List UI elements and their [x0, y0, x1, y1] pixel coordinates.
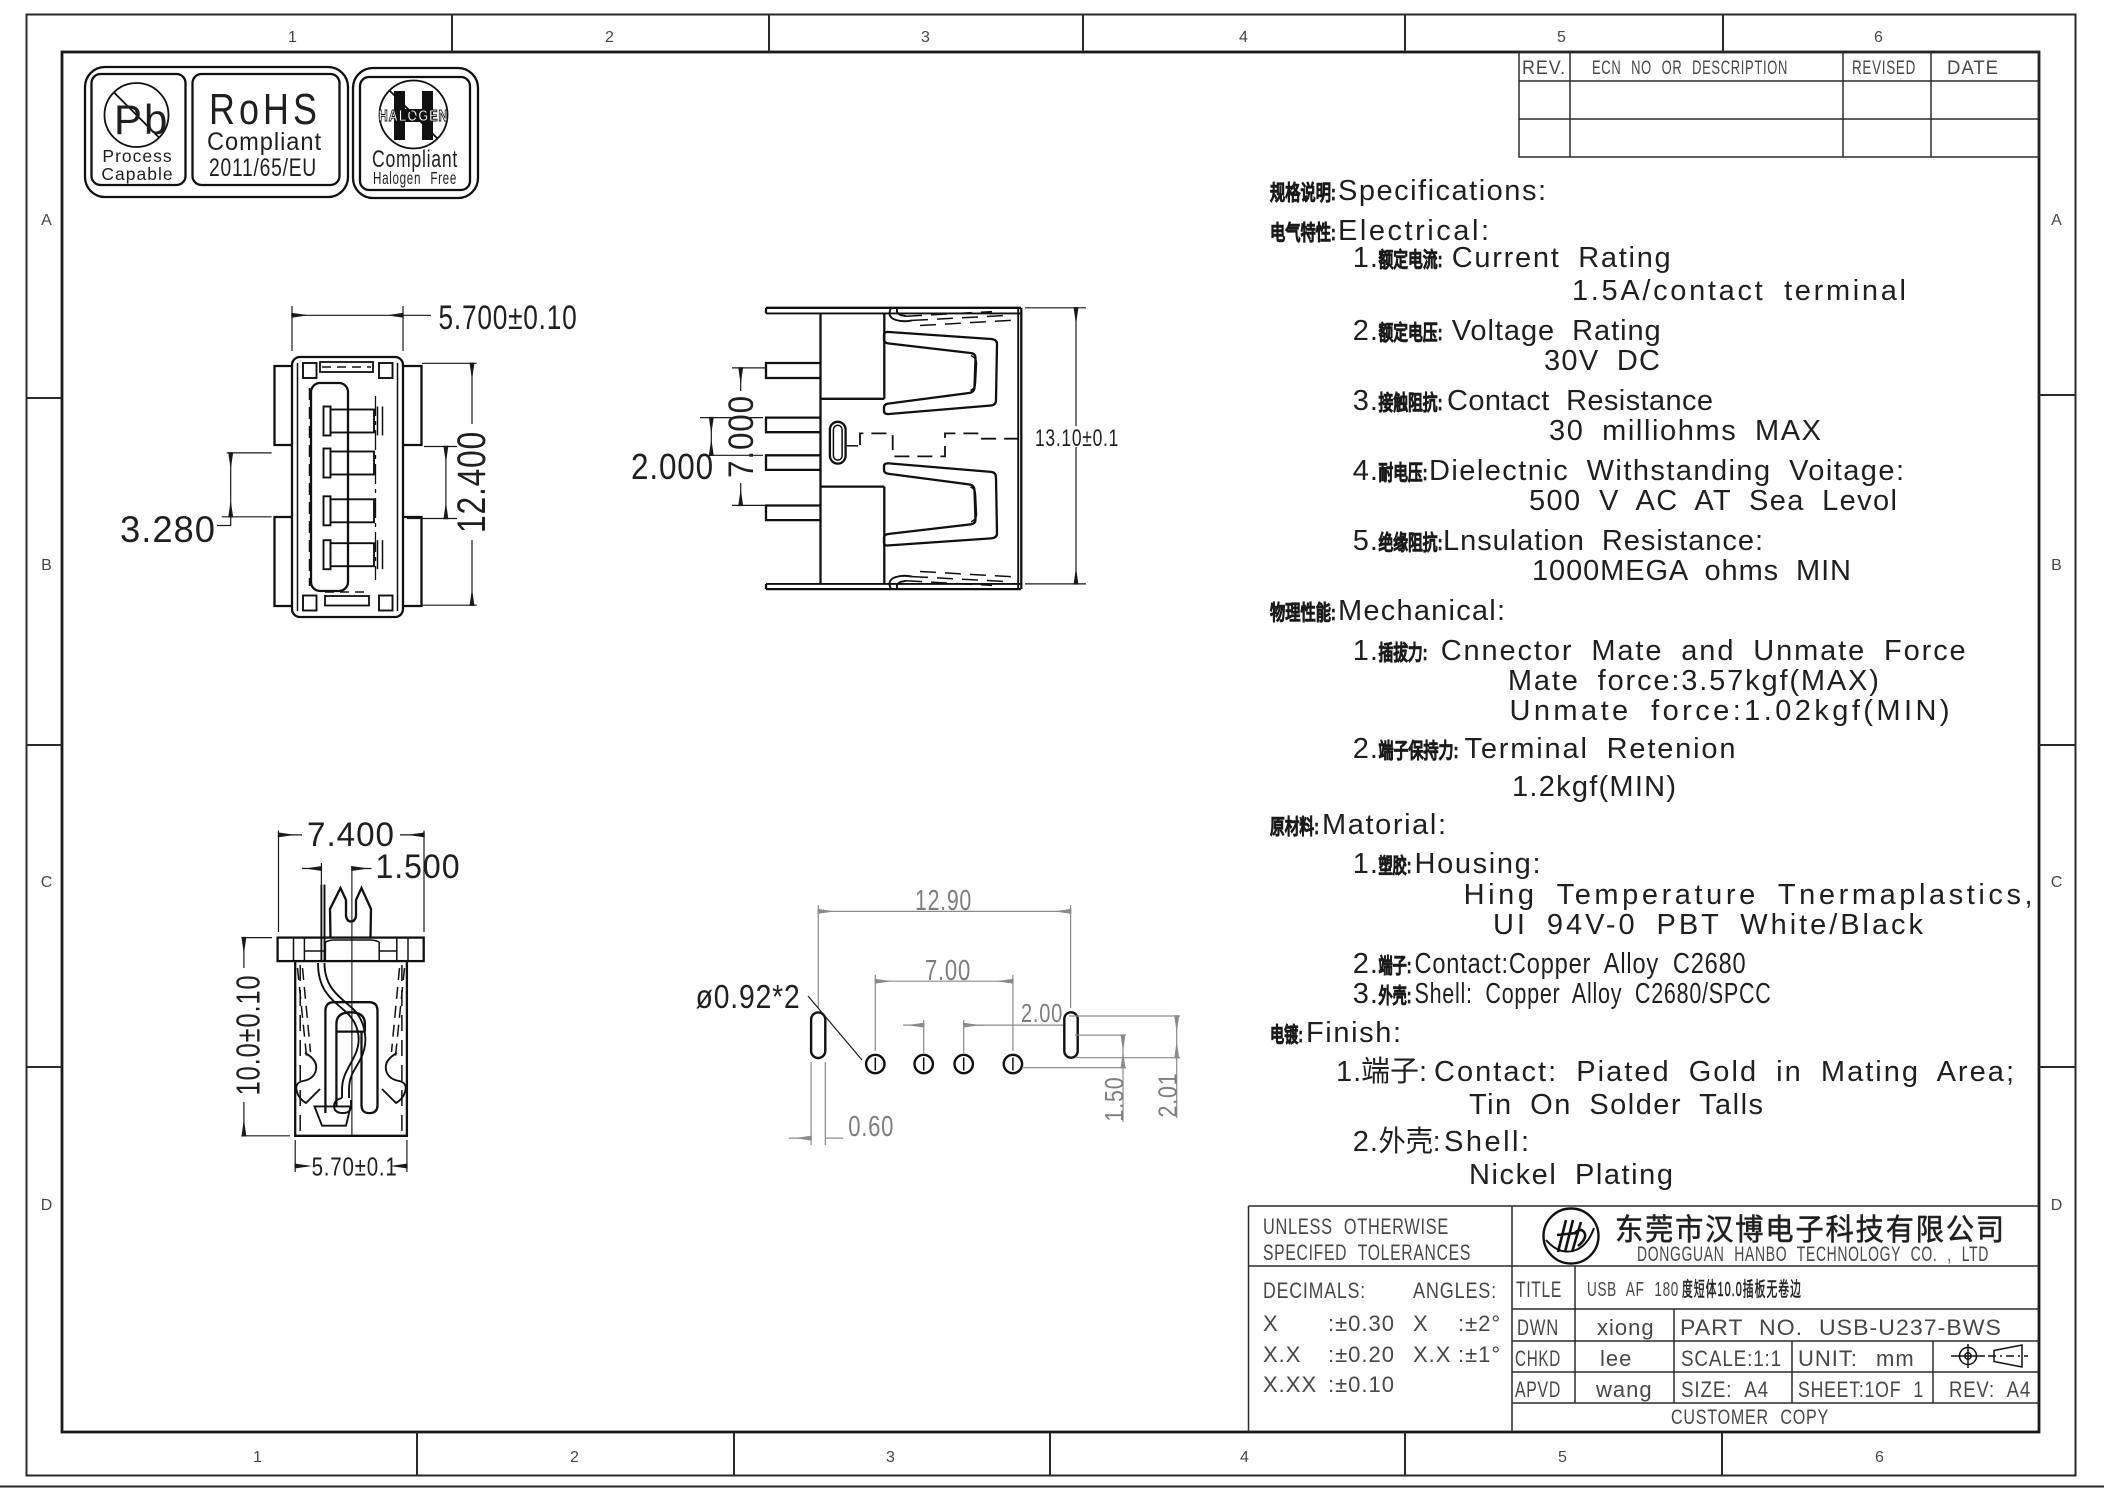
svg-text:10.0±0.10: 10.0±0.10: [230, 975, 267, 1096]
svg-text:SPECIFED TOLERANCES: SPECIFED TOLERANCES: [1263, 1240, 1471, 1265]
dim 7.400: [278, 831, 280, 933]
dim 5.700±0.10: [291, 306, 293, 351]
Pb circle: [105, 83, 169, 147]
svg-text:Shell:: Shell:: [1444, 1126, 1530, 1158]
svg-text:2.01: 2.01: [1153, 1073, 1183, 1118]
svg-text:7.000: 7.000: [722, 395, 761, 478]
svg-text:Contact Resistance: Contact Resistance: [1447, 385, 1714, 417]
svg-text:C: C: [2051, 874, 2064, 891]
contact spring S-curve: [318, 963, 359, 1098]
svg-text:1.: 1.: [1353, 848, 1379, 880]
svg-text:USB AF 180: USB AF 180: [1587, 1279, 1679, 1301]
svg-text:1.: 1.: [1336, 1056, 1362, 1088]
big H: [394, 91, 433, 140]
contact 1 pin: [324, 407, 331, 436]
svg-text:APVD: APVD: [1515, 1377, 1561, 1402]
hole 2: [915, 1055, 933, 1073]
svg-text:规格说明:: 规格说明:: [1270, 181, 1336, 205]
svg-text:1000MEGA ohms MIN: 1000MEGA ohms MIN: [1532, 555, 1852, 587]
dim 0.60: [810, 1062, 812, 1145]
svg-text:Cnnector Mate and Unmate Force: Cnnector Mate and Unmate Force: [1441, 635, 1967, 667]
svg-text:Finish:: Finish:: [1306, 1017, 1402, 1049]
svg-text:绝缘阻抗:: 绝缘阻抗:: [1379, 531, 1443, 555]
right mount wing bottom: [403, 517, 422, 606]
svg-text:Mechanical:: Mechanical:: [1338, 595, 1506, 627]
dim 1.50: [1075, 1034, 1126, 1036]
svg-text:Contact: Piated Gold in Matin: Contact: Piated Gold in Mating Area;: [1434, 1056, 2015, 1088]
svg-text:外壳:: 外壳:: [1379, 1125, 1441, 1158]
svg-text::±0.20: :±0.20: [1328, 1342, 1395, 1367]
RoHS box: [193, 74, 340, 185]
svg-text:2.000: 2.000: [631, 446, 714, 487]
svg-text:3: 3: [886, 1449, 896, 1466]
svg-text:DATE: DATE: [1947, 58, 1999, 79]
svg-text:5.: 5.: [1353, 525, 1379, 557]
zone ticks top: [451, 15, 453, 53]
svg-text:D: D: [41, 1197, 54, 1214]
svg-text:3.: 3.: [1353, 978, 1379, 1010]
svg-text:6: 6: [1875, 1449, 1885, 1466]
dim 12.90: [817, 905, 819, 1008]
svg-text:6: 6: [1874, 29, 1884, 46]
shell top edge: [766, 307, 1021, 309]
svg-text:Contact:Copper Alloy C2680: Contact:Copper Alloy C2680: [1415, 948, 1747, 980]
svg-text:Process: Process: [102, 146, 172, 166]
contact centerline: [375, 396, 377, 580]
svg-text:插拔力:: 插拔力:: [1379, 641, 1428, 665]
left mount wing top: [275, 366, 293, 445]
upper contact spring: [884, 332, 997, 414]
svg-text:B: B: [41, 557, 53, 574]
svg-text:1: 1: [288, 29, 298, 46]
svg-text:SHEET:1OF 1: SHEET:1OF 1: [1798, 1377, 1924, 1402]
svg-text:塑胶:: 塑胶:: [1379, 854, 1412, 878]
svg-text:3.: 3.: [1353, 385, 1379, 417]
svg-text:耐电压:: 耐电压:: [1379, 462, 1428, 485]
svg-text:Housing:: Housing:: [1415, 848, 1542, 880]
svg-text:Hing Temperature Tnermaplasti: Hing Temperature Tnermaplastics,: [1464, 879, 2034, 911]
spring foot: [334, 1098, 351, 1113]
pin 2: [766, 418, 821, 433]
svg-text:HALOGEN: HALOGEN: [379, 108, 449, 125]
dim right notch: [424, 446, 457, 448]
svg-text:CUSTOMER COPY: CUSTOMER COPY: [1671, 1406, 1829, 1429]
pin 1: [766, 363, 821, 378]
svg-text:A: A: [41, 212, 53, 229]
svg-text:13.10±0.1: 13.10±0.1: [1035, 425, 1119, 452]
svg-text:Halogen Free: Halogen Free: [373, 168, 457, 188]
tongue hidden edge: [309, 388, 311, 586]
contact cavity pill: [336, 1012, 365, 1106]
svg-text:端子保持力:: 端子保持力:: [1379, 739, 1459, 763]
svg-text:1.5A/contact terminal: 1.5A/contact terminal: [1572, 275, 1907, 307]
svg-text::±2°: :±2°: [1458, 1311, 1501, 1336]
contact 1 pad: [331, 410, 375, 433]
svg-text:电镀:: 电镀:: [1270, 1023, 1303, 1047]
zone ticks right: [2039, 394, 2076, 396]
dim 2.000: [700, 417, 763, 419]
svg-text:500 V AC AT Sea Levol: 500 V AC AT Sea Levol: [1529, 485, 1898, 517]
svg-text:5.70±0.1: 5.70±0.1: [312, 1152, 398, 1182]
shell outline: [292, 357, 403, 617]
svg-text:Terminal Retenion: Terminal Retenion: [1465, 733, 1737, 765]
svg-text:REV.: REV.: [1522, 58, 1566, 79]
Pb box: [92, 74, 186, 185]
svg-text:额定电流:: 额定电流:: [1379, 248, 1443, 272]
contact 4 pad: [331, 543, 375, 566]
svg-text:端子:: 端子:: [1361, 1055, 1427, 1088]
svg-text:X.X: X.X: [1263, 1342, 1301, 1367]
svg-text:端子:: 端子:: [1379, 955, 1412, 978]
svg-text:B: B: [2051, 557, 2063, 574]
latch hook right: [382, 1053, 406, 1103]
svg-text:UNIT:: UNIT:: [1798, 1346, 1858, 1371]
svg-text:Shell: Copper Alloy C2680/SPCC: Shell: Copper Alloy C2680/SPCC: [1415, 978, 1772, 1010]
svg-text:X.XX: X.XX: [1263, 1372, 1317, 1397]
dim 12.400: [422, 362, 477, 364]
svg-text:5.700±0.10: 5.700±0.10: [439, 299, 578, 337]
svg-text:1.2kgf(MIN): 1.2kgf(MIN): [1512, 771, 1677, 803]
housing blocks: [821, 398, 885, 400]
Halogen circle: [380, 81, 448, 149]
latch hook left: [296, 1053, 320, 1103]
svg-text:外壳:: 外壳:: [1379, 984, 1412, 1008]
svg-text:DONGGUAN HANBO TECHNOLOGY CO.: DONGGUAN HANBO TECHNOLOGY CO. , LTD: [1637, 1243, 1989, 1266]
svg-text:1.50: 1.50: [1099, 1077, 1129, 1122]
retention slot lines: [377, 540, 379, 569]
svg-text:4: 4: [1239, 29, 1249, 46]
svg-text:Pb: Pb: [114, 96, 169, 143]
pin 4: [766, 506, 821, 521]
svg-text:原材料:: 原材料:: [1270, 815, 1319, 839]
svg-text:1.: 1.: [1353, 242, 1379, 274]
locating boss oval: [830, 422, 846, 464]
dim 1.500: [320, 863, 322, 885]
pin 3: [766, 455, 821, 470]
left mount wing bottom: [275, 517, 293, 606]
svg-text:Dielectnic Withstanding Voitag: Dielectnic Withstanding Voitage:: [1429, 455, 1905, 487]
dim 3.280: [227, 452, 272, 454]
slot left: [811, 1012, 825, 1058]
Halogen badge outer: [353, 68, 478, 198]
right mount wing top: [403, 366, 422, 445]
svg-text:电气特性:: 电气特性:: [1270, 221, 1336, 245]
svg-text:2.: 2.: [1353, 733, 1379, 765]
flange: [278, 938, 424, 962]
svg-text:lee: lee: [1600, 1346, 1632, 1371]
svg-text:X: X: [1413, 1311, 1429, 1336]
svg-text:REV: A4: REV: A4: [1949, 1377, 2031, 1402]
center axis: [351, 866, 353, 1136]
svg-text:Specifications:: Specifications:: [1338, 175, 1547, 207]
svg-text:2.: 2.: [1353, 948, 1379, 980]
dim 2.01: [1069, 1015, 1180, 1017]
svg-text:30V DC: 30V DC: [1544, 345, 1661, 377]
svg-text:D: D: [2051, 1197, 2064, 1214]
svg-text:X.X: X.X: [1413, 1342, 1451, 1367]
svg-text:SCALE:1:1: SCALE:1:1: [1681, 1346, 1782, 1371]
hidden tongue line: [846, 445, 858, 447]
svg-text:5: 5: [1558, 1449, 1568, 1466]
projection symbols: [1960, 1348, 1977, 1365]
svg-text:UNLESS OTHERWISE: UNLESS OTHERWISE: [1263, 1214, 1449, 1239]
svg-text:PART NO. USB-U237-BWS: PART NO. USB-U237-BWS: [1680, 1315, 2002, 1340]
svg-text:0.60: 0.60: [848, 1111, 894, 1143]
svg-text:30 milliohms MAX: 30 milliohms MAX: [1549, 415, 1822, 447]
svg-text:SIZE: A4: SIZE: A4: [1681, 1377, 1769, 1402]
revision table: [1519, 52, 2039, 157]
dim 7.000: [732, 367, 766, 369]
svg-text:2011/65/EU: 2011/65/EU: [209, 154, 317, 182]
dim 7.00: [874, 975, 876, 1051]
svg-text:mm: mm: [1876, 1346, 1915, 1371]
tongue cavity: [325, 1002, 377, 1113]
bottom shell lip: [890, 572, 1012, 590]
contact 4 pin: [324, 540, 331, 569]
svg-text:2.: 2.: [1353, 315, 1379, 347]
svg-text:Lnsulation Resistance:: Lnsulation Resistance:: [1443, 525, 1764, 557]
hole 4: [1004, 1055, 1022, 1073]
top fork contact: [330, 888, 371, 938]
side taper right: [396, 968, 405, 1056]
svg-text:Unmate force:1.02kgf(MIN): Unmate force:1.02kgf(MIN): [1510, 695, 1951, 727]
svg-text:2.: 2.: [1353, 1126, 1379, 1158]
corner key top-right: [379, 363, 393, 378]
svg-text:Matorial:: Matorial:: [1322, 809, 1447, 841]
side taper left: [298, 968, 307, 1056]
title block: [1248, 1206, 1250, 1432]
dim 5.70±0.1: [294, 1140, 296, 1172]
svg-text:5: 5: [1557, 29, 1567, 46]
dim 10.0±0.10: [241, 937, 272, 939]
svg-text:DWN: DWN: [1517, 1315, 1559, 1340]
svg-text:额定电压:: 额定电压:: [1379, 321, 1443, 345]
dim 13.10±0.1: [1025, 307, 1086, 309]
zone ticks left: [27, 397, 63, 399]
company logo: [1544, 1209, 1599, 1264]
top shell lip: [890, 308, 912, 321]
hole 1: [866, 1055, 884, 1073]
thin pin: [320, 885, 322, 962]
svg-text:ANGLES:: ANGLES:: [1413, 1278, 1497, 1303]
svg-text:Compliant: Compliant: [207, 128, 322, 156]
svg-text:C: C: [41, 874, 54, 891]
corner key bottom-left: [303, 596, 317, 611]
svg-text:3.280: 3.280: [120, 509, 216, 550]
corner key top-left: [303, 363, 317, 378]
lower contact spring: [884, 463, 997, 545]
svg-text:物理性能:: 物理性能:: [1270, 601, 1336, 625]
svg-text:ECN NO OR DESCRIPTION: ECN NO OR DESCRIPTION: [1592, 58, 1788, 79]
bottom edge strip: [0, 1486, 2104, 1488]
svg-text:REVISED: REVISED: [1852, 58, 1916, 79]
Halogen inner box: [360, 77, 470, 190]
retention slot lines: [377, 407, 379, 436]
svg-text:Capable: Capable: [101, 164, 173, 184]
svg-text:xiong: xiong: [1597, 1315, 1655, 1340]
svg-text:1.500: 1.500: [376, 848, 461, 886]
svg-text:Nickel Plating: Nickel Plating: [1469, 1159, 1674, 1191]
svg-text:3: 3: [921, 29, 931, 46]
tongue outline: [311, 383, 348, 591]
contact 2 pad: [331, 452, 375, 475]
svg-text:2: 2: [570, 1449, 580, 1466]
svg-text:12.90: 12.90: [915, 885, 972, 917]
svg-text:Voltage Rating: Voltage Rating: [1452, 315, 1662, 347]
svg-text:A: A: [2051, 212, 2063, 229]
svg-text:2.00: 2.00: [1021, 998, 1063, 1028]
shell bottom edge: [766, 583, 1021, 585]
svg-text:Current Rating: Current Rating: [1452, 242, 1672, 274]
svg-text:RoHS: RoHS: [209, 85, 321, 134]
svg-text:1: 1: [253, 1449, 263, 1466]
contact 2 pin: [324, 449, 331, 478]
svg-text:4: 4: [1240, 1449, 1250, 1466]
svg-text:X: X: [1263, 1311, 1279, 1336]
svg-text:Mate force:3.57kgf(MAX): Mate force:3.57kgf(MAX): [1508, 665, 1880, 697]
svg-text::±1°: :±1°: [1458, 1342, 1501, 1367]
body left wall: [819, 313, 821, 584]
svg-text:ø0.92*2: ø0.92*2: [696, 978, 801, 1015]
hole 3: [955, 1055, 973, 1073]
svg-text:7.00: 7.00: [925, 955, 971, 987]
svg-text:接触阻抗:: 接触阻抗:: [1379, 391, 1443, 415]
corner key bottom-right: [379, 596, 393, 611]
svg-text:UI 94V-0 PBT White/Black: UI 94V-0 PBT White/Black: [1493, 909, 1924, 941]
body: [295, 961, 407, 1136]
bottom latch bar: [325, 596, 369, 606]
logo badge Pb/RoHS outer: [85, 67, 348, 197]
halogen slash: [390, 91, 438, 139]
svg-text:TITLE: TITLE: [1516, 1277, 1562, 1302]
svg-text::±0.10: :±0.10: [1328, 1372, 1395, 1397]
slot right: [1064, 1012, 1077, 1057]
contact 3 pad: [331, 499, 375, 522]
svg-text:Tin On Solder Talls: Tin On Solder Talls: [1469, 1089, 1764, 1121]
svg-text:度短体10.0插板无卷边: 度短体10.0插板无卷边: [1682, 1278, 1802, 1301]
svg-text:CHKD: CHKD: [1515, 1346, 1561, 1371]
base trapezoid: [315, 1106, 351, 1125]
svg-text::±0.30: :±0.30: [1328, 1311, 1395, 1336]
body hidden side walls: [299, 965, 301, 1131]
svg-text:4.: 4.: [1353, 455, 1379, 487]
zone ticks bottom: [416, 1432, 418, 1476]
svg-text:2: 2: [605, 29, 615, 46]
svg-text:wang: wang: [1595, 1377, 1653, 1402]
dim 2.00: [923, 1020, 925, 1053]
svg-text:DECIMALS:: DECIMALS:: [1263, 1278, 1366, 1303]
svg-text:1.: 1.: [1353, 635, 1379, 667]
shell right wall: [1017, 308, 1019, 589]
top latch bar: [320, 362, 373, 372]
contact 3 pin: [324, 496, 331, 525]
